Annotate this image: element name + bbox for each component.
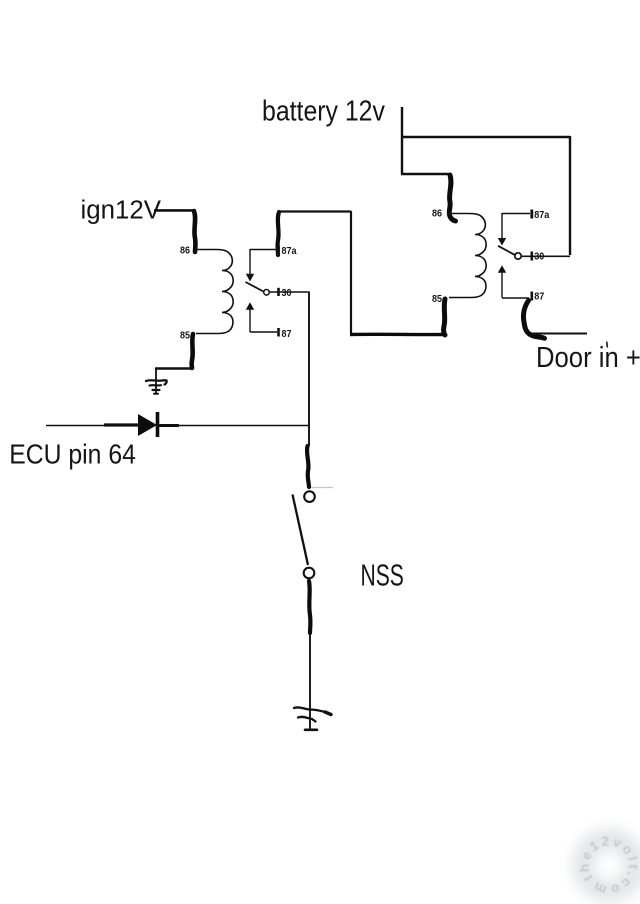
svg-text:87: 87 (282, 329, 292, 341)
svg-text:87a: 87a (534, 210, 550, 222)
svg-text:Door in +: Door in + (536, 341, 640, 374)
switch blade relay1 (246, 282, 264, 292)
relay2 contact 87a tick (530, 210, 533, 219)
svg-text:ign12V: ign12V (81, 196, 162, 224)
label relay2 pin 85 (432, 294, 443, 306)
wire relay1 87a horizontal (250, 249, 277, 251)
svg-text:86: 86 (180, 245, 190, 257)
label relay2 30 (534, 251, 544, 263)
label ign12V (81, 196, 162, 224)
label NSS (361, 557, 404, 592)
wire relay2 87a horizontal (502, 213, 530, 215)
arrowhead up relay1 (246, 302, 254, 310)
label relay1 87a (282, 246, 298, 258)
wire battery top horizontal (401, 136, 570, 138)
svg-text:NSS: NSS (361, 557, 404, 592)
svg-text:85: 85 (432, 294, 443, 306)
relay1 contact 87 tick (277, 328, 280, 337)
wire vertical to ground (309, 633, 311, 729)
relay2 coil K2 (449, 214, 486, 298)
label battery 12v (262, 95, 385, 127)
arrowhead down relay2 (498, 238, 506, 246)
diode D1 (46, 412, 309, 437)
watermark the12volt.com (564, 820, 640, 904)
label Door in + (536, 341, 640, 374)
wire thick stroke from relay2 pin 85 (444, 299, 445, 335)
relay2 contact 30 tick (530, 252, 533, 261)
relay1 coil K1 (196, 250, 233, 334)
NSS switch blade (293, 495, 309, 566)
faint line near NSS top (311, 487, 333, 489)
svg-text:ECU pin 64: ECU pin 64 (9, 438, 136, 470)
wire relay2 30 horizontal (522, 255, 571, 257)
switch blade relay2 (498, 246, 516, 256)
label relay1 pin 86 (180, 245, 190, 257)
wire battery to relay2 86 horizontal (401, 173, 450, 175)
wire relay1 30 horizontal (270, 291, 310, 293)
label ECU pin 64 (9, 438, 136, 470)
ground G2 (294, 707, 331, 729)
wire thick stroke into relay2 pin 86 (449, 175, 455, 221)
ground G1 (146, 368, 167, 394)
stray mark above Door text (606, 342, 609, 347)
label relay2 87a (534, 210, 550, 222)
wire relay2 87 horizontal (502, 297, 529, 299)
label relay1 pin 85 (180, 330, 191, 342)
wire relay2 87 arrow stem (501, 272, 503, 298)
wire relay2 87a arrow stem (501, 213, 503, 238)
relay1 contact 30 tick (277, 288, 280, 296)
NSS switch bottom circle (304, 568, 315, 579)
wire mid vertical down (350, 211, 352, 334)
label relay1 87 (282, 329, 292, 341)
wire right vertical to contact 30 (569, 136, 571, 255)
wire relay1 87a over to mid vertical (279, 210, 351, 212)
wire thick stroke from relay1 pin 85 (192, 334, 193, 368)
label relay2 87 (534, 291, 544, 303)
NSS switch top circle (304, 491, 315, 502)
relay1 contact 87a tick (277, 246, 280, 256)
pivot circle relay1 (264, 290, 270, 296)
wire ign12V horizontal (154, 209, 194, 212)
svg-text:battery 12v: battery 12v (262, 95, 385, 127)
svg-text:30: 30 (534, 251, 544, 263)
svg-text:30: 30 (282, 288, 292, 300)
wire door horizontal (530, 333, 587, 335)
wire thick stroke above NSS (307, 446, 309, 487)
relay2 contact 87 tick (530, 292, 533, 301)
svg-text:86: 86 (432, 208, 442, 220)
wire battery vertical stub (401, 107, 403, 174)
wire thick stroke into relay1 pin 86 (194, 211, 195, 252)
arrowhead down relay1 (246, 274, 254, 282)
arrowhead up relay2 (498, 265, 506, 273)
wire relay1 87 arrow stem (249, 309, 251, 332)
pivot circle relay2 (515, 253, 521, 259)
svg-text:85: 85 (180, 330, 191, 342)
wire thick horizontal to relay2 85 (350, 333, 446, 337)
label relay2 pin 86 (432, 208, 442, 220)
wire long vertical from relay1 30 (308, 292, 310, 426)
wire thick stroke above relay1 contact 87a (278, 212, 279, 255)
wire relay1 87 horizontal (250, 331, 277, 333)
wire relay1 85 to ground horizontal (155, 367, 193, 370)
svg-text:87a: 87a (282, 246, 298, 258)
wire vertical below diode junction (308, 425, 310, 446)
wire thick stroke from relay2 87 to door wire (523, 301, 544, 339)
wire thick stroke below NSS (309, 581, 310, 633)
svg-text:87: 87 (534, 291, 544, 303)
label relay1 30 (282, 288, 292, 300)
wire relay1 87a arrow stem (249, 249, 251, 274)
